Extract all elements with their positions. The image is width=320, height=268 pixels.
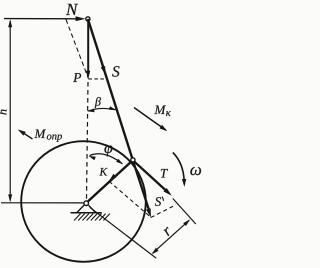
crank pin K (131, 158, 135, 162)
crank circle (21, 141, 146, 262)
force N horizontal line (4, 18, 79, 20)
stroke axis dashed N-O (87, 82, 89, 199)
connecting rod N-K (88, 19, 133, 160)
label Mk (154, 105, 166, 114)
baseline through O (1, 202, 84, 204)
label Mopr (34, 129, 46, 138)
r dimension line (153, 220, 190, 253)
moment Mopr arrow (20, 131, 33, 139)
dashed parallelogram side T-tip (151, 205, 176, 218)
pivot pin O (84, 201, 89, 206)
label P (73, 73, 81, 82)
label K (99, 168, 107, 176)
crank O-K (86, 160, 133, 203)
dashed parallelogram side at N (66, 20, 88, 79)
force S arrowhead (101, 66, 106, 75)
ground hatching (74, 214, 110, 221)
label phi (104, 145, 112, 156)
label S (112, 66, 119, 76)
crosshead pin (86, 17, 90, 21)
force S' (133, 160, 150, 211)
label beta (95, 97, 101, 108)
force K arrowhead (109, 174, 117, 181)
label S' (155, 197, 161, 206)
phi angle arc (90, 154, 123, 164)
force T (133, 160, 167, 191)
label r (163, 227, 172, 236)
dashed parallelogram side K-tip (109, 181, 151, 217)
label T (161, 169, 168, 178)
moment Mk arrow (134, 108, 166, 131)
r extension from O (90, 207, 156, 258)
label N (66, 4, 78, 15)
label omega (190, 167, 201, 175)
beta angle arc (88, 108, 116, 111)
support triangle (77, 205, 96, 212)
dashed tip connector (88, 78, 105, 80)
h dimension line (9, 21, 11, 201)
omega arrow (173, 153, 184, 182)
force P (87, 21, 89, 72)
label h (0, 110, 7, 115)
r extension from T tip (173, 199, 196, 225)
